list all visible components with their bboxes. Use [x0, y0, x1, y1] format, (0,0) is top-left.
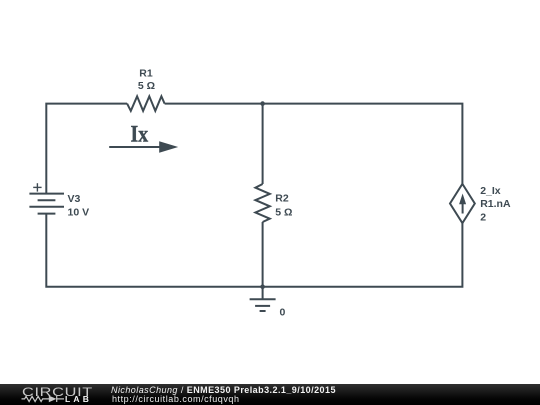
footer bar	[0, 384, 540, 405]
current source arrow shaft	[462, 202, 464, 214]
ground stub	[262, 287, 264, 300]
current label Ix arrow line	[109, 146, 161, 148]
svg-text:R1: R1	[139, 68, 153, 80]
wire top-right horizontal	[165, 104, 463, 184]
svg-text:10 V: 10 V	[68, 207, 90, 219]
svg-text:5 Ω: 5 Ω	[138, 80, 155, 92]
logo LAB text	[65, 394, 92, 404]
wire left-bottom and bottom horizontal	[46, 214, 462, 287]
voltage source V3 battery plates	[29, 193, 64, 195]
svg-text:R1.nA: R1.nA	[480, 198, 511, 210]
junction dot top node	[260, 101, 265, 106]
dependent current source U diamond	[450, 184, 475, 223]
logo CIRCUIT text	[22, 385, 93, 399]
svg-text:5 Ω: 5 Ω	[275, 207, 292, 219]
wire top-left horizontal	[46, 104, 127, 194]
svg-text:2: 2	[480, 211, 486, 223]
logo zigzag and diode	[20, 394, 70, 405]
svg-text:Ix: Ix	[131, 122, 149, 147]
V3 plus sign	[33, 183, 41, 191]
ground line 3	[260, 310, 266, 312]
ground line 1	[250, 298, 276, 300]
svg-text:0: 0	[280, 306, 286, 318]
ground line 2	[255, 305, 270, 307]
svg-text:R2: R2	[275, 193, 289, 205]
footer url line	[112, 394, 240, 404]
svg-text:V3: V3	[68, 193, 81, 205]
current source arrow head	[459, 194, 466, 205]
svg-text:2_Ix: 2_Ix	[480, 185, 501, 197]
wire R2 branch bottom	[262, 222, 264, 287]
footer credit line	[111, 385, 336, 395]
wire R2 branch top	[262, 104, 264, 184]
junction dot bottom node	[260, 284, 265, 289]
Ix arrow head	[159, 141, 178, 153]
resistor R2	[255, 184, 269, 222]
resistor R1	[127, 96, 165, 111]
